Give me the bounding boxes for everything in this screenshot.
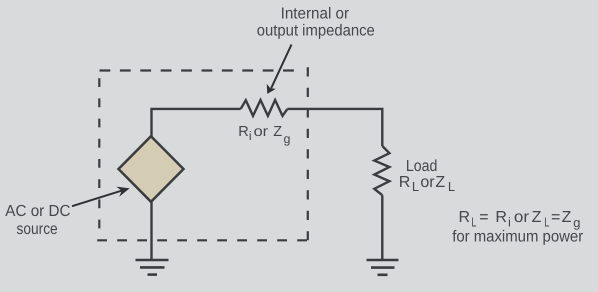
svg-text:R: R (495, 209, 507, 226)
svg-text:source: source (17, 221, 58, 238)
svg-text:i: i (249, 129, 252, 143)
svg-text:output impedance: output impedance (257, 23, 375, 40)
svg-text:L: L (412, 179, 419, 194)
svg-text:or: or (254, 124, 269, 140)
svg-text:Z: Z (273, 124, 282, 140)
svg-text:L: L (448, 179, 455, 194)
svg-text:R: R (399, 174, 411, 191)
svg-text:L: L (471, 215, 476, 230)
svg-text:i: i (508, 215, 511, 230)
svg-text:or: or (514, 209, 530, 226)
svg-text:Z: Z (562, 209, 572, 226)
svg-text:or: or (420, 174, 435, 191)
svg-text:R: R (459, 209, 471, 226)
svg-text:g: g (284, 132, 291, 146)
svg-text:Z: Z (532, 209, 542, 226)
svg-text:AC or DC: AC or DC (5, 203, 70, 220)
svg-text:Internal or: Internal or (281, 6, 350, 23)
svg-text:Z: Z (435, 174, 445, 191)
svg-text:=: = (551, 209, 560, 226)
svg-text:=: = (479, 209, 488, 226)
svg-text:L: L (544, 215, 549, 230)
svg-text:for maximum power: for maximum power (452, 229, 584, 246)
svg-text:R: R (238, 124, 248, 140)
svg-text:Load: Load (406, 158, 438, 175)
